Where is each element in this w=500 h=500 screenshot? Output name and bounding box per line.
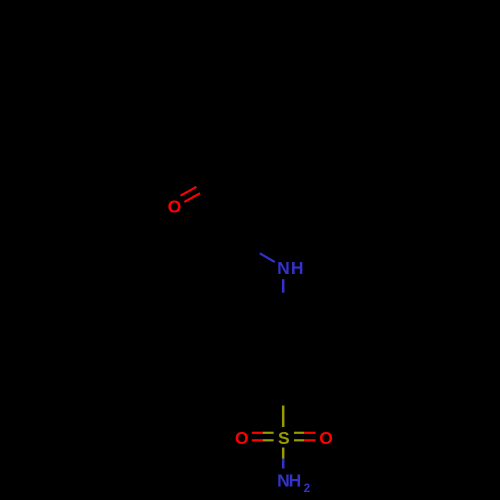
svg-text:O: O — [168, 196, 182, 216]
svg-text:S: S — [278, 428, 290, 448]
left S=O double bond: yellow half near S — [263, 433, 274, 441]
N-ring bond: black half near ring — [282, 293, 284, 317]
S-NH2 bond: blue half near N — [282, 459, 285, 469]
CH2-N bond: black half near CH2 — [236, 238, 260, 253]
right S=O double bond: red half near O — [304, 433, 315, 441]
svg-text:O: O — [235, 428, 249, 448]
carbonyl C=O double bond, red half near O — [181, 187, 201, 202]
left S=O double bond: red half near O — [252, 433, 263, 441]
svg-text:H: H — [289, 471, 302, 491]
CH2-N bond: blue half near N — [260, 253, 275, 262]
svg-text:N: N — [277, 258, 290, 278]
right S=O double bond: yellow half near S — [294, 433, 304, 441]
carbonyl C=O double bond, black half near C — [197, 176, 219, 193]
benzene ring bottom (black on black) — [250, 317, 317, 374]
phenyl ring (carbon bonds, black on black) — [222, 28, 316, 176]
ring-S bond: black half near ring — [282, 374, 284, 406]
S-NH2 bond: yellow half near S — [282, 448, 285, 459]
svg-text:H: H — [291, 258, 304, 278]
carbonyl C to CH2 bond (black) — [222, 176, 236, 238]
N-ring bond: blue half near N — [282, 279, 285, 293]
svg-text:2: 2 — [304, 483, 310, 495]
ring-S bond: yellow half near S — [282, 406, 285, 428]
svg-text:O: O — [319, 428, 333, 448]
